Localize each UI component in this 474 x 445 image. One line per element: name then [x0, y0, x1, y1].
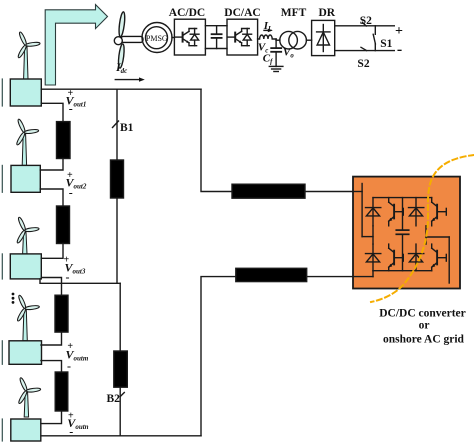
IGBT cell Q4 (lower-right) [409, 244, 447, 271]
svg-text:-: - [67, 359, 71, 373]
breaker B2 body [114, 351, 128, 387]
big cyan flow arrow [45, 5, 107, 85]
wire MFT to DR [306, 39, 311, 41]
wind turbine WT0 hub [114, 37, 122, 45]
bridge mid-right node [425, 226, 427, 244]
label Vout2 [66, 170, 87, 200]
converter AC/DC box [174, 19, 205, 55]
transformer MFT primary circle [280, 31, 298, 49]
wind turbine WT3 [16, 217, 39, 254]
wire WT2 bottom to R2 [40, 189, 63, 206]
wire WT3 bottom to R3 [41, 278, 61, 296]
wire R2 to WT3 [41, 244, 63, 259]
current arrow Idc [115, 77, 145, 81]
IGBT cell Q2 (upper-right) [409, 198, 447, 226]
wire riser to bottom cable [201, 277, 236, 436]
IGBT icon in DC/AC [227, 29, 251, 46]
dc-link capacitor [212, 26, 222, 49]
cropped neighbour box edge 2 [1, 165, 3, 192]
wire WTm bottom to R4 [41, 361, 62, 372]
wire PMSG to AC/DC [172, 37, 174, 39]
svg-text:PMSG: PMSG [146, 34, 168, 43]
dashed highlight curve [371, 155, 474, 302]
cable resistor R1 [57, 122, 71, 159]
wind turbine WTm [16, 295, 39, 341]
label Vout1 [66, 88, 87, 115]
wire top cable to converter [305, 191, 353, 193]
wire riser to top cable [201, 89, 232, 191]
svg-text:AC/DC: AC/DC [169, 7, 205, 19]
svg-text:-: - [69, 102, 73, 116]
cropped neighbour box edge 5 [1, 419, 3, 441]
generator PMSG inner circle [146, 27, 168, 49]
svg-text:B1: B1 [120, 122, 134, 134]
svg-text:DC/AC: DC/AC [224, 7, 260, 19]
label Vout3 [64, 255, 86, 285]
svg-text:DR: DR [318, 7, 335, 19]
cable resistor R2 [57, 206, 70, 244]
svg-text:S2: S2 [357, 58, 369, 70]
wire WT1 bottom to R1 [41, 103, 63, 121]
diode in DR [317, 25, 330, 52]
wire DR top output [335, 25, 395, 27]
submarine cable bottom [236, 268, 307, 281]
wire main dc bus top [41, 88, 201, 90]
breaker bus upper segment [116, 89, 118, 283]
wire R3 to WTm [41, 332, 62, 345]
bridge dc-link capacitor [396, 198, 408, 271]
wind turbine WT2 [16, 119, 39, 166]
submarine cable top [232, 184, 305, 198]
svg-text:MFT: MFT [281, 7, 307, 19]
converter box WT1 [10, 79, 41, 106]
bridge top rail [373, 197, 432, 199]
DC/DC converter orange box [353, 177, 460, 289]
wire bottom return rail [41, 435, 201, 437]
switch S2 top blade [362, 22, 366, 26]
converter box WTm [9, 341, 42, 365]
dc-link rail top [205, 25, 227, 27]
wire DR bottom output [335, 50, 395, 52]
rectifier DR box [312, 20, 335, 55]
label Voutm [66, 341, 89, 373]
wind turbine WT0 lower blade [117, 44, 125, 69]
wire R4 to WTn [41, 411, 62, 424]
wire R1 to WT2 [40, 159, 63, 171]
IGBT cell Q3 (lower-left) [366, 244, 404, 271]
IGBT cell Q1 (upper-left) [366, 198, 404, 226]
svg-text:or: or [419, 319, 430, 331]
cable resistor R4 [55, 372, 68, 411]
switch S2 bottom blade [361, 47, 367, 50]
bridge input wire left [353, 184, 373, 237]
converter box WTn [11, 419, 41, 441]
svg-text:-: - [69, 425, 73, 439]
svg-text:+: + [395, 24, 403, 39]
wire to filter node [275, 39, 277, 40]
converter box WT3 [10, 254, 41, 279]
svg-text:S2: S2 [360, 15, 372, 27]
svg-text:-: - [69, 186, 73, 200]
breaker B1 body [111, 160, 124, 198]
bridge bottom input wire [353, 271, 373, 277]
bridge output wire right [426, 237, 449, 283]
svg-text:DC/DC converter: DC/DC converter [379, 307, 466, 319]
svg-text:S1: S1 [380, 38, 392, 50]
bridge mid-left node [372, 226, 374, 244]
transformer MFT secondary circle [289, 31, 307, 49]
label Voutn [67, 411, 88, 439]
filter capacitor Cf [271, 40, 281, 66]
wind turbine WT0 upper blade [118, 12, 126, 38]
svg-text:onshore AC grid: onshore AC grid [383, 333, 465, 345]
converter box WT2 [11, 165, 40, 192]
inductor Lf [258, 35, 277, 39]
switch S1 branch [373, 26, 375, 51]
dots ellipsis [12, 293, 15, 304]
cropped neighbour box edge 4 [1, 341, 3, 365]
generator PMSG outer circle [142, 23, 172, 53]
breaker B1 tick [113, 121, 119, 128]
wire bottom cable to converter [307, 276, 353, 278]
current arrow IL [264, 29, 273, 33]
cropped neighbour box edge 1 [1, 79, 3, 106]
dc-link rail bottom [205, 48, 227, 50]
wind turbine WT1 [17, 31, 40, 79]
cropped neighbour box edge 3 [1, 254, 3, 279]
svg-text:B2: B2 [107, 393, 121, 405]
ground [269, 66, 283, 71]
svg-text:-: - [66, 270, 70, 284]
wind turbine WT0 (large, top) nacelle [121, 36, 143, 42]
converter DC/AC box [227, 19, 258, 55]
svg-text:-: - [397, 41, 402, 58]
breaker bus lower segment [119, 283, 121, 436]
wire bus tap at WT3 [40, 279, 120, 283]
wind turbine WTn [18, 377, 41, 417]
IGBT icon in AC/DC [175, 29, 199, 46]
bridge bottom rail [373, 270, 432, 272]
breaker B2 tick [120, 393, 124, 397]
cable resistor R3 [55, 295, 68, 332]
